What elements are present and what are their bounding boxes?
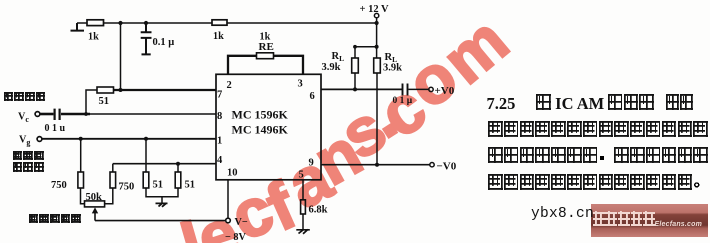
wire 51a lead (145, 139, 147, 172)
wire vertical to pin7 line (120, 23, 122, 90)
wire pin3 up (274, 56, 304, 75)
node +12V/jog (375, 45, 379, 49)
svg-text:− 8V: − 8V (225, 232, 246, 243)
svg-text:51: 51 (153, 180, 164, 191)
svg-text:0 1 u: 0 1 u (45, 123, 66, 134)
svg-text:10: 10 (227, 168, 238, 179)
resistor 1k (top-mid) (212, 20, 227, 25)
wire pin7 line (114, 89, 217, 91)
node vertical/pin7 (119, 88, 123, 92)
wire +12V down (376, 18, 378, 58)
wire 51 bottoms join (146, 188, 178, 203)
+V0 terminal (429, 87, 433, 91)
wire top rail right (227, 22, 377, 24)
svg-text:MC 1596K: MC 1596K (232, 108, 289, 122)
label 载频输入 (carrier input) (3, 92, 46, 110)
svg-text:4: 4 (217, 155, 223, 166)
svg-text:750: 750 (51, 180, 67, 191)
paragraph line 3: 可得到载频输出，该输出随着调 (488, 147, 709, 165)
wire Vc to cap (40, 113, 53, 116)
svg-text:6: 6 (310, 91, 315, 102)
wire top rail mid (104, 22, 213, 24)
wire cap to pin8 (61, 113, 90, 115)
svg-text:5: 5 (299, 170, 304, 181)
svg-text:0 1 μ: 0 1 μ (393, 96, 413, 106)
wire 750b lead (112, 164, 114, 172)
wire 750a bottom to pot (81, 188, 85, 204)
svg-text:3: 3 (298, 79, 303, 90)
capacitor 0.1u (top) (141, 23, 152, 54)
wire pin9 line (321, 164, 430, 166)
svg-text:Vg: Vg (19, 135, 30, 148)
resistor R 1k (top-left) (87, 20, 104, 26)
wire RL1 bottom to pin6 line (354, 73, 356, 89)
svg-text:RE: RE (259, 41, 274, 53)
V- terminal (226, 218, 231, 223)
node pin1/750 (79, 137, 83, 141)
wire jog to RL1 (355, 47, 377, 58)
paragraph line 4: 制信号的强度而产生幅度变化。 (488, 174, 709, 192)
svg-text:Vc: Vc (18, 112, 29, 125)
resistor RE 1k (257, 53, 274, 59)
node jog left (353, 45, 357, 49)
capacitor 0.1u output (403, 84, 408, 96)
label 调制信 (modulation) (12, 151, 44, 169)
svg-text:3.9k: 3.9k (383, 63, 402, 74)
node junction rail/vertical (118, 21, 122, 25)
resistor RL 3.9k (left) (352, 58, 359, 73)
svg-text:7: 7 (217, 90, 222, 101)
svg-text:750: 750 (119, 182, 135, 193)
resistor 750 (b) (110, 172, 116, 188)
+12V terminal (374, 13, 378, 17)
node pin8/corner (84, 112, 88, 116)
wire 51 to corner (86, 90, 97, 114)
node RL1/pin6 (353, 87, 357, 91)
wire pin1 line (42, 138, 216, 140)
resistor RL 3.9k (right) (374, 58, 381, 73)
svg-text:9: 9 (309, 158, 314, 169)
-V0 terminal (430, 163, 434, 167)
wire 750a lead (80, 139, 82, 172)
svg-text:V−: V− (235, 217, 248, 228)
wire pin4 line (113, 163, 216, 165)
paragraph line 1: 7.25 单 IC AM 调制器 载频 (487, 94, 694, 114)
node pin1/51 (144, 137, 148, 141)
wire pin2 up (228, 56, 257, 75)
wire 6.8k to ground (302, 214, 304, 230)
svg-text:1k: 1k (213, 31, 224, 42)
svg-text:51: 51 (185, 180, 196, 191)
wire pin10 down (227, 180, 229, 218)
svg-text:1k: 1k (88, 32, 99, 43)
svg-text:51: 51 (99, 96, 110, 107)
ground (51 pair) (156, 203, 168, 206)
resistor 750 (a) (78, 172, 84, 188)
node junction rail/capacitor (144, 21, 148, 25)
op-amp U1 MC1596K box (216, 74, 321, 180)
wiper arrow (94, 213, 96, 221)
node +12V/rail (375, 21, 379, 25)
node pin4/51 (176, 162, 180, 166)
svg-text:MC 1496K: MC 1496K (232, 123, 289, 137)
wire wiper to V- (95, 220, 225, 222)
svg-text:2: 2 (227, 80, 232, 91)
svg-text:8: 8 (217, 111, 222, 122)
resistor 6.8k (301, 200, 306, 214)
banner 电子发烧友 Elecfans.com bottom right (591, 204, 708, 238)
wire pin6 line (321, 88, 402, 90)
svg-text:+ 12 V: + 12 V (360, 4, 390, 15)
ground (6.8k) (296, 229, 310, 233)
label 号输入 (12, 162, 44, 180)
wire 750b bottom to pot (105, 188, 113, 204)
resistor 51 (b) (175, 172, 181, 188)
node RL2/pin9 (375, 163, 379, 167)
Vg terminal (37, 137, 42, 142)
paragraph line 2: 差分对上附加了可调载频偏移就 (488, 121, 709, 139)
svg-text:6.8k: 6.8k (309, 205, 328, 216)
Vc terminal (35, 112, 40, 117)
wire pin5 down (302, 180, 304, 200)
wire top rail left (77, 22, 87, 24)
capacitor 0.1u input (55, 109, 60, 120)
svg-text:0.1 μ: 0.1 μ (153, 37, 175, 48)
svg-text:50k: 50k (86, 192, 103, 203)
label 载频调零 (carrier null) (28, 214, 81, 232)
resistor 51 (a) (143, 172, 149, 188)
svg-text:+V0: +V0 (435, 85, 455, 97)
resistor 51 (pin7) (97, 87, 114, 93)
svg-text:−V0: −V0 (437, 161, 457, 173)
wire RL2 bottom down to pin9 line (376, 73, 378, 165)
wire 51b lead (177, 164, 179, 172)
ybx8.cn (531, 206, 594, 222)
svg-text:3.9k: 3.9k (322, 62, 341, 73)
wire to +V0 (409, 88, 429, 90)
svg-text:1: 1 (217, 136, 222, 147)
potentiometer 50k (85, 201, 105, 207)
ground top-left (71, 23, 85, 31)
